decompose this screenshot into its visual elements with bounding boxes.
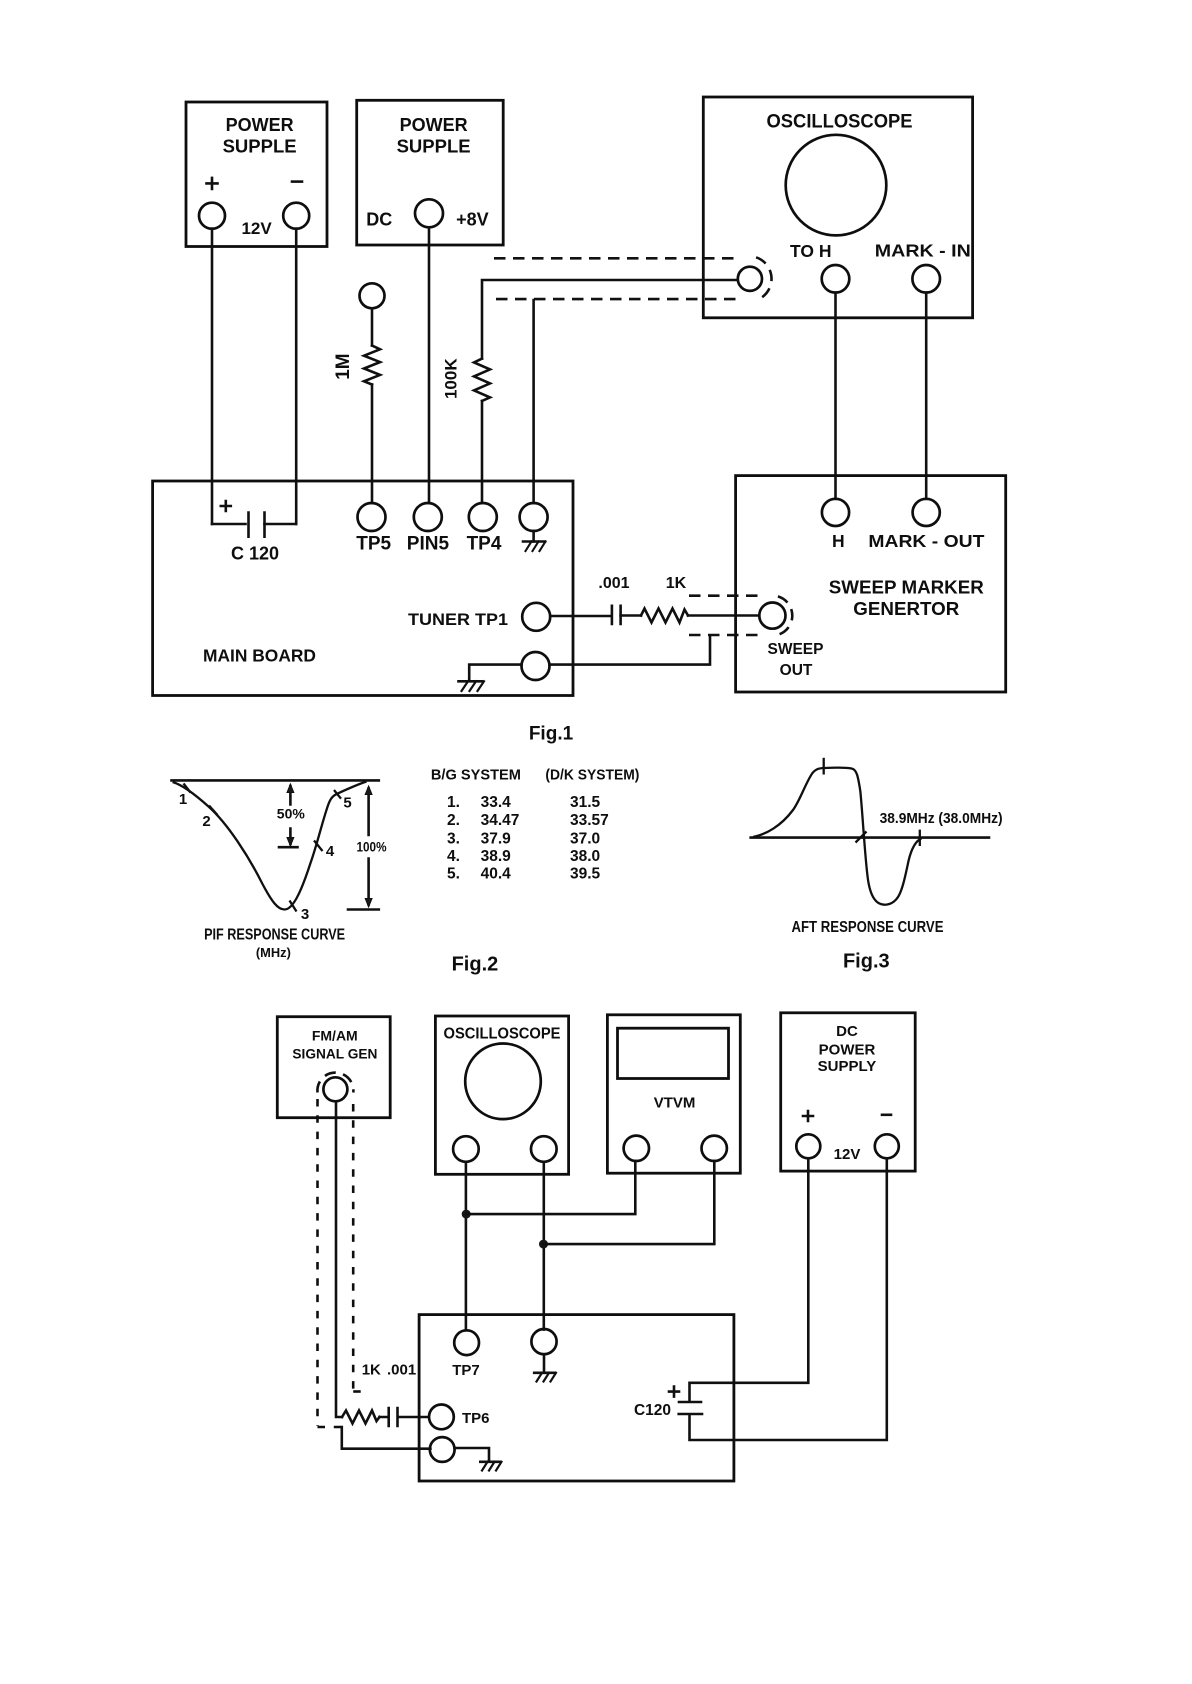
svg-text:.001: .001 [598,575,629,592]
wire osc A down to TP7 [465,1162,468,1331]
DC plus sign [803,1111,813,1121]
svg-text:33.4: 33.4 [481,794,512,811]
svg-text:3: 3 [301,906,309,923]
sweep out dashed shield arc [778,596,792,634]
curve tick 2 [209,806,218,816]
svg-text:2.: 2. [447,812,460,829]
oscilloscope MARK-IN terminal [912,265,940,293]
svg-text:3.: 3. [447,830,460,847]
wire junction B to VTVM B [544,1161,715,1244]
svg-text:(D/K SYSTEM): (D/K SYSTEM) [545,766,639,783]
svg-text:1: 1 [179,791,187,808]
FM/AM signal generator box [277,1017,390,1118]
capacitor .001 [598,575,629,624]
wire TP4 up through 100K to coax center [482,280,738,503]
MARK-OUT terminal [913,499,940,526]
svg-text:12V: 12V [834,1146,861,1163]
oscilloscope box [703,97,972,318]
svg-text:FM/AM: FM/AM [312,1027,358,1043]
svg-text:MARK - IN: MARK - IN [875,241,971,261]
DC - terminal [875,1134,899,1158]
curve tick 5 [334,790,341,799]
wire return terminal to ground [455,1448,489,1460]
resistor 1M [364,346,380,385]
TP5 terminal [358,503,386,531]
svg-text:100%: 100% [357,839,387,855]
svg-text:TUNER TP1: TUNER TP1 [408,610,508,629]
AFT crossing tick [856,832,867,843]
oscilloscope terminal A [453,1136,479,1162]
curve tick 3 [290,901,297,912]
oscilloscope coax input jack [738,267,762,291]
svg-text:POWER: POWER [400,115,468,135]
wire 1M to TP5 [371,385,374,504]
wire PS1 - down to main board [295,229,298,524]
svg-text:SWEEP: SWEEP [768,641,824,658]
curve tick 4 [314,841,323,852]
wire 1K to sweep out [688,614,759,617]
PS1 plus sign [207,178,218,189]
TP6 terminal [429,1405,454,1430]
wire TP1 to .001 cap [550,615,610,618]
wire probe tip to 1M [371,308,374,345]
svg-text:2: 2 [202,813,210,830]
svg-text:POWER: POWER [226,115,294,135]
wire cap to 1K [621,614,641,617]
main board box (bottom) [419,1315,734,1481]
lower return terminal [430,1437,455,1462]
sweep shield bottom dashed [689,634,762,637]
oscilloscope terminal B [531,1136,557,1162]
oscilloscope box (bottom) [435,1016,568,1174]
svg-text:SUPPLE: SUPPLE [397,136,471,156]
C120 plus sign (bottom) [669,1387,679,1397]
svg-text:+8V: +8V [456,210,489,230]
svg-text:5: 5 [343,795,351,812]
svg-text:PIN5: PIN5 [407,534,450,555]
svg-text:50%: 50% [277,806,306,822]
curve tick 1 [184,784,191,793]
svg-text:12V: 12V [241,219,272,238]
wire junction A to VTVM A [466,1161,635,1214]
PS1 - terminal [283,203,309,229]
PS1 + terminal [199,203,225,229]
wire lower terminal to shield stub [550,636,711,665]
DC power supply box [781,1013,916,1171]
svg-text:TP7: TP7 [452,1362,480,1379]
VTVM terminal B [702,1136,727,1161]
svg-text:1K: 1K [362,1361,381,1378]
svg-text:TP6: TP6 [462,1410,490,1427]
oscilloscope CRT circle (bottom) [465,1044,541,1120]
svg-text:Fig.2: Fig.2 [452,953,499,975]
oscilloscope TO H terminal [822,265,850,293]
svg-text:1K: 1K [666,575,687,592]
shield ground terminal [520,503,548,531]
resistor 1K (bottom) [342,1411,380,1424]
resistor 1K [641,575,688,623]
svg-text:OUT: OUT [780,662,813,679]
AFT response curve [753,768,922,905]
shield tap to board return [342,1427,431,1449]
ground symbol under terminal [534,1354,556,1381]
DC + terminal [796,1134,820,1158]
wire MARK-IN to MARK-OUT [925,293,928,499]
svg-text:B/G SYSTEM: B/G SYSTEM [431,766,521,783]
svg-text:38.0: 38.0 [570,848,600,865]
SWEEP OUT jack [759,603,785,629]
PS2 DC terminal [415,199,443,227]
svg-text:5.: 5. [447,866,460,883]
svg-text:39.5: 39.5 [570,866,601,883]
TUNER TP1 terminal [522,603,550,631]
svg-text:POWER: POWER [819,1041,876,1058]
PIF response reference top line [172,779,379,782]
coax shield bottom dashed [496,298,740,301]
capacitor C 120 [212,513,296,564]
sweep shield top dashed [689,594,763,597]
svg-text:VTVM: VTVM [654,1094,696,1111]
coax shield right dash corner [353,1390,363,1393]
ground symbol under shield terminal [523,531,546,551]
svg-text:SWEEP MARKER: SWEEP MARKER [829,577,984,597]
wire DC terminal down to PIN5 [428,227,431,503]
wire osc B down to board ground [542,1162,545,1330]
FM/AM jack dashed shield arc [317,1073,353,1093]
svg-text:SUPPLY: SUPPLY [818,1058,877,1075]
wire TO H to H [834,293,837,499]
svg-text:TP5: TP5 [356,534,391,555]
AFT axis line [751,836,989,839]
svg-text:OSCILLOSCOPE: OSCILLOSCOPE [444,1026,561,1043]
svg-text:38.9: 38.9 [481,848,512,865]
svg-text:PIF RESPONSE CURVE: PIF RESPONSE CURVE [204,927,345,944]
board ground terminal (bottom) [531,1329,556,1354]
svg-text:AFT RESPONSE CURVE: AFT RESPONSE CURVE [792,919,944,936]
svg-text:MAIN BOARD: MAIN BOARD [203,645,316,665]
svg-text:37.0: 37.0 [570,830,600,847]
ground symbol at TP1 return [459,681,485,691]
svg-text:.001: .001 [387,1361,416,1378]
svg-text:4: 4 [326,843,335,860]
svg-text:1M: 1M [333,353,354,379]
AFT plateau tick [823,758,825,775]
svg-text:OSCILLOSCOPE: OSCILLOSCOPE [767,112,913,133]
capacitor .001 (bottom) [380,1408,428,1426]
coax jack dashed shield arc [756,257,771,300]
AFT 38.0 tick [919,830,921,846]
svg-text:TO H: TO H [790,241,832,261]
table row 2 [447,812,609,829]
100% dimension arrow [348,786,379,910]
PIF response curve [173,782,367,910]
svg-text:DC: DC [366,210,392,230]
junction dot B [539,1240,548,1249]
table row 3 [447,830,600,847]
coax shield left dashed wire [316,1099,319,1426]
svg-text:1.: 1. [447,794,460,811]
VTVM terminal A [624,1136,649,1161]
svg-text:MARK - OUT: MARK - OUT [868,531,984,551]
svg-text:TP4: TP4 [467,534,502,555]
wire lower terminal to ground [469,665,521,680]
PIN5 terminal [414,503,442,531]
wire DC + to C120 [690,1158,809,1400]
TP4 terminal [469,503,497,531]
ground symbol at return [480,1462,501,1471]
PS1 minus sign [292,180,302,183]
oscilloscope CRT circle [786,135,887,236]
svg-text:C 120: C 120 [231,544,279,564]
svg-text:34.47: 34.47 [481,812,520,829]
svg-text:40.4: 40.4 [481,866,512,883]
svg-text:100K: 100K [442,358,461,399]
svg-text:GENERTOR: GENERTOR [853,599,959,619]
H terminal [822,499,849,526]
power supply PS2 box [357,100,504,245]
DC minus sign [882,1114,891,1117]
capacitor C120 (bottom) [634,1402,702,1419]
svg-text:SUPPLE: SUPPLE [223,136,297,156]
resistor 100K [474,359,490,401]
coax center wire from FM/AM jack [336,1101,342,1417]
table row 5 [447,866,601,883]
50% dimension arrow [279,784,298,847]
C120 plus sign [221,501,231,511]
wire PS1 + down to main board [211,229,214,524]
wire DC - to C120 [690,1158,887,1440]
TP5 probe tip circle [360,283,385,308]
table row 1 [447,794,601,811]
svg-text:DC: DC [836,1023,858,1040]
svg-text:SIGNAL GEN: SIGNAL GEN [292,1046,377,1062]
svg-text:C120: C120 [634,1402,671,1419]
svg-text:H: H [832,531,845,551]
coax shield right dashed wire [352,1104,355,1390]
svg-text:31.5: 31.5 [570,794,601,811]
coax shield ground wire [532,300,535,503]
svg-text:Fig.1: Fig.1 [529,724,574,745]
svg-text:38.9MHz (38.0MHz): 38.9MHz (38.0MHz) [880,811,1003,827]
junction dot A [462,1210,471,1219]
FM/AM output jack [323,1077,347,1101]
coax shield bottom dash corner [318,1426,351,1429]
svg-text:37.9: 37.9 [481,830,512,847]
main board lower ground terminal [522,652,550,680]
svg-text:(MHz): (MHz) [256,945,291,960]
TP7 terminal [454,1330,479,1355]
coax shield top dashed [494,257,740,260]
svg-text:4.: 4. [447,848,460,865]
svg-text:Fig.3: Fig.3 [843,951,890,973]
main board box [153,481,573,696]
VTVM box [607,1015,740,1173]
table row 4 [447,848,600,865]
svg-text:33.57: 33.57 [570,812,609,829]
power supply PS1 box [186,102,327,247]
sweep marker generator box [736,476,1006,692]
